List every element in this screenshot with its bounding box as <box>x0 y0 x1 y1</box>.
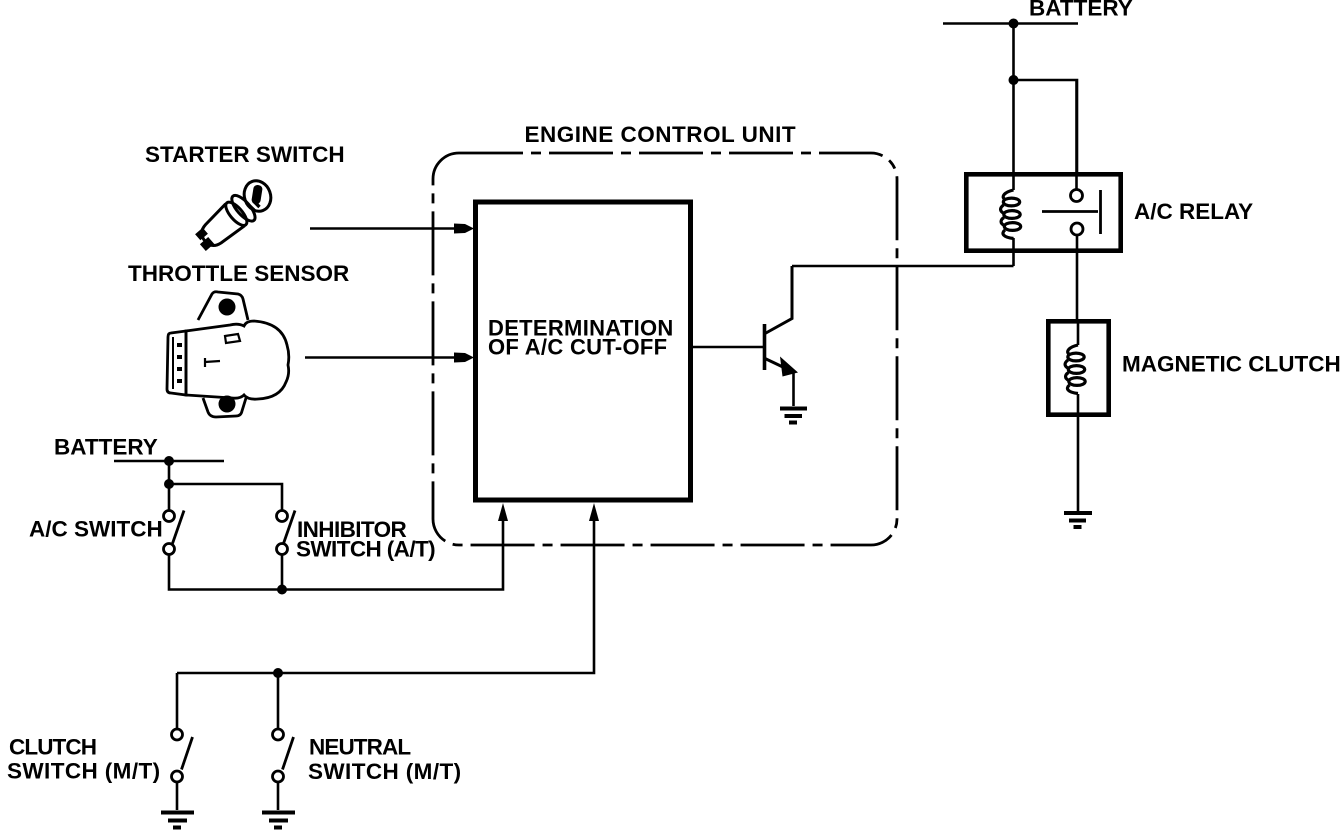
wire neutral switch to ground <box>277 782 280 810</box>
svg-text:ENGINE CONTROL UNIT: ENGINE CONTROL UNIT <box>525 122 797 147</box>
relay K1 A/C RELAY box <box>966 174 1120 250</box>
junction battery branch <box>1009 75 1019 85</box>
wire inhibitor switch down <box>281 555 284 590</box>
junction inhibitor bottom <box>277 585 287 595</box>
arrowhead throttle input <box>454 353 474 363</box>
wire throttle sensor input <box>305 356 456 359</box>
arrowhead into ECU box (left) <box>498 503 508 521</box>
determination of A/C cut-off box <box>476 202 691 500</box>
transistor Q1 emitter <box>765 359 785 369</box>
relay contact terminal bottom <box>1071 223 1083 235</box>
svg-text:MAGNETIC CLUTCH: MAGNETIC CLUTCH <box>1122 352 1341 377</box>
wire branch to relay contact <box>1014 80 1078 173</box>
relay contact terminal top <box>1071 190 1083 202</box>
transistor Q1 collector <box>765 266 792 334</box>
svg-text:A/C RELAY: A/C RELAY <box>1134 199 1253 224</box>
junction branch to inhibitor <box>164 479 174 489</box>
wire relay coil lead bottom <box>1012 238 1015 266</box>
arrowhead into ECU box (right) <box>589 503 599 521</box>
ground (neutral switch) <box>262 813 295 828</box>
svg-text:A/C SWITCH: A/C SWITCH <box>29 517 163 542</box>
inhibitor switch S2 <box>277 511 296 555</box>
svg-text:BATTERY: BATTERY <box>1029 0 1133 21</box>
wire A/C switch to ECU <box>169 518 503 590</box>
wire emitter to ground <box>792 371 795 406</box>
svg-text:SWITCH (M/T): SWITCH (M/T) <box>7 759 161 784</box>
starter switch icon <box>195 177 275 253</box>
A/C switch S1 <box>164 511 185 555</box>
wire relay contact top lead <box>1075 80 1078 190</box>
throttle sensor icon <box>167 292 289 417</box>
arrowhead starter input <box>454 224 474 234</box>
relay contact bar <box>1099 190 1102 234</box>
wire clutch switch to ground <box>176 782 179 810</box>
wire collector to relay coil <box>792 265 1014 268</box>
junction neutral branch <box>273 668 283 678</box>
ECU dashed boundary <box>433 153 897 545</box>
svg-text:SWITCH (A/T): SWITCH (A/T) <box>296 537 435 562</box>
relay contact arm <box>1042 210 1098 213</box>
junction battery lower <box>164 456 174 466</box>
wire battery lower horizontal <box>114 460 224 463</box>
svg-text:NEUTRAL: NEUTRAL <box>309 735 411 760</box>
neutral switch S4 <box>273 729 294 782</box>
magnetic clutch coil lead top <box>1077 319 1080 345</box>
magnetic clutch box <box>1048 321 1108 414</box>
junction battery top <box>1009 19 1019 29</box>
wire branch to inhibitor switch <box>169 484 282 511</box>
wire ECU output to transistor base <box>691 346 764 349</box>
wire to neutral switch <box>277 673 280 729</box>
magnetic clutch coil <box>1065 345 1085 394</box>
svg-text:THROTTLE SENSOR: THROTTLE SENSOR <box>128 261 349 286</box>
relay coil <box>1001 190 1021 239</box>
svg-text:STARTER SWITCH: STARTER SWITCH <box>145 142 345 167</box>
wire battery vertical to relay coil <box>1012 24 1015 191</box>
svg-text:BATTERY: BATTERY <box>54 435 158 460</box>
clutch switch S3 <box>172 729 193 782</box>
connector <box>167 331 186 395</box>
svg-text:CLUTCH: CLUTCH <box>9 735 96 760</box>
ground (clutch switch) <box>161 813 194 828</box>
ground (transistor) <box>780 409 807 423</box>
ground (magnetic clutch) <box>1064 513 1092 527</box>
arrowhead emitter <box>780 357 798 377</box>
wire to clutch switch <box>176 673 179 729</box>
wire battery down to A/C switch <box>168 461 171 511</box>
wire relay contact bottom lead to clutch <box>1076 235 1079 319</box>
body and right lobe <box>186 321 289 399</box>
top mounting ear <box>198 292 248 320</box>
svg-text:SWITCH (M/T): SWITCH (M/T) <box>308 759 462 784</box>
wire magnetic clutch lead to ground <box>1077 394 1080 511</box>
svg-text:OF A/C CUT-OFF: OF A/C CUT-OFF <box>488 335 667 360</box>
wire starter switch input <box>310 227 456 230</box>
wire battery feed horizontal <box>943 22 1078 25</box>
transistor Q1 base bar <box>763 324 767 370</box>
wire clutch/neutral bus <box>177 518 594 673</box>
bottom mounting ear <box>203 398 246 417</box>
